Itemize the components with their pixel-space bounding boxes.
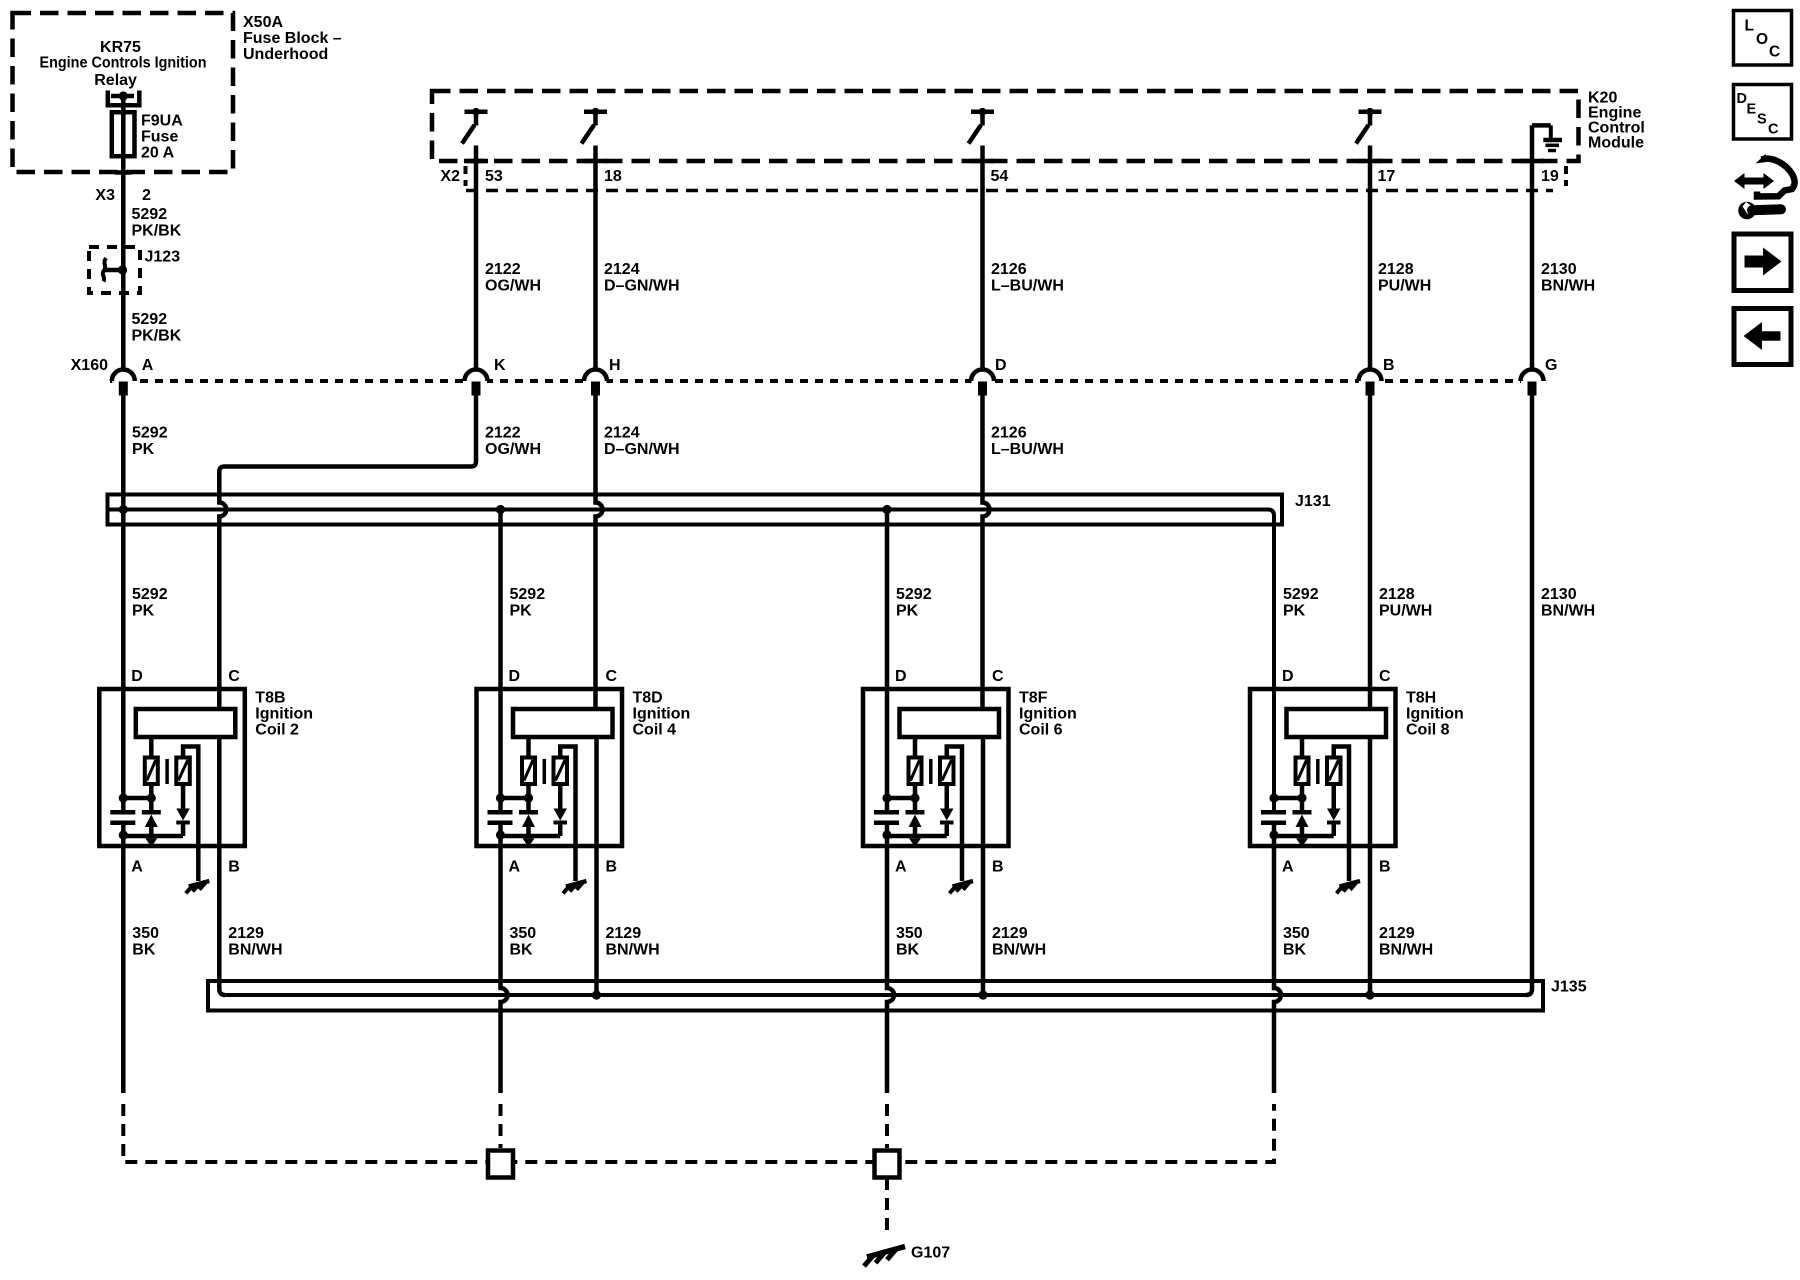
svg-text:PU/WH: PU/WH [1378,277,1431,294]
svg-text:A: A [509,859,521,876]
svg-text:B: B [606,859,618,876]
svg-text:Underhood: Underhood [243,46,328,63]
svg-text:BN/WH: BN/WH [1541,277,1595,294]
svg-text:BN/WH: BN/WH [228,941,282,958]
svg-text:T8B: T8B [255,690,285,707]
svg-text:5292: 5292 [1283,586,1319,603]
svg-text:L: L [1745,18,1754,35]
svg-text:5292: 5292 [132,586,168,603]
svg-text:2129: 2129 [1379,925,1415,942]
svg-text:19: 19 [1541,168,1559,185]
svg-text:X50A: X50A [243,14,283,31]
svg-text:C: C [606,668,618,685]
svg-text:PK: PK [132,602,155,619]
svg-text:Relay: Relay [94,72,137,89]
svg-text:BK: BK [510,941,534,958]
svg-text:Coil 4: Coil 4 [633,722,677,739]
svg-text:BK: BK [1283,941,1307,958]
svg-text:C: C [1769,44,1780,61]
svg-text:PK/BK: PK/BK [132,328,182,345]
svg-text:T8H: T8H [1406,690,1436,707]
svg-text:54: 54 [991,168,1009,185]
svg-text:Module: Module [1588,135,1644,152]
svg-text:350: 350 [510,925,537,942]
svg-text:K: K [494,357,506,374]
svg-text:S: S [1757,112,1767,128]
svg-text:2130: 2130 [1541,261,1577,278]
svg-text:H: H [609,357,621,374]
svg-text:L–BU/WH: L–BU/WH [991,441,1064,458]
svg-text:2129: 2129 [992,925,1028,942]
svg-text:PK/BK: PK/BK [132,223,182,240]
svg-text:5292: 5292 [132,311,168,328]
svg-text:BN/WH: BN/WH [606,941,660,958]
svg-text:2122: 2122 [485,261,521,278]
svg-text:BK: BK [132,941,156,958]
svg-text:J123: J123 [145,249,181,266]
svg-text:350: 350 [896,925,923,942]
svg-text:A: A [895,859,907,876]
svg-text:20 A: 20 A [141,145,175,162]
svg-text:L–BU/WH: L–BU/WH [991,277,1064,294]
svg-text:Ignition: Ignition [1406,706,1464,723]
svg-text:Ignition: Ignition [255,706,313,723]
svg-text:5292: 5292 [132,206,168,223]
svg-text:17: 17 [1378,168,1396,185]
svg-text:Ignition: Ignition [633,706,691,723]
svg-text:A: A [131,859,143,876]
svg-text:OG/WH: OG/WH [485,277,541,294]
svg-text:B: B [228,859,240,876]
svg-text:2128: 2128 [1378,261,1414,278]
svg-text:2129: 2129 [606,925,642,942]
svg-text:E: E [1747,102,1757,118]
svg-text:Coil 8: Coil 8 [1406,722,1450,739]
svg-text:Ignition: Ignition [1019,706,1077,723]
svg-text:PU/WH: PU/WH [1379,602,1432,619]
svg-text:BK: BK [896,941,920,958]
svg-text:2124: 2124 [604,425,640,442]
svg-text:18: 18 [604,168,622,185]
svg-text:Engine Controls Ignition: Engine Controls Ignition [40,55,207,72]
svg-text:Coil 2: Coil 2 [255,722,299,739]
svg-text:D–GN/WH: D–GN/WH [604,277,680,294]
svg-text:Fuse Block –: Fuse Block – [243,30,342,47]
svg-text:350: 350 [132,925,159,942]
svg-text:2128: 2128 [1379,586,1415,603]
svg-text:J131: J131 [1295,493,1331,510]
svg-text:O: O [1756,31,1768,48]
svg-text:D: D [1737,91,1747,107]
svg-text:B: B [992,859,1004,876]
svg-text:D: D [895,668,907,685]
svg-text:2122: 2122 [485,425,521,442]
svg-text:2130: 2130 [1541,586,1577,603]
svg-text:A: A [1282,859,1294,876]
svg-text:J135: J135 [1551,979,1587,996]
svg-text:BN/WH: BN/WH [992,941,1046,958]
svg-text:C: C [1379,668,1391,685]
svg-text:53: 53 [485,168,503,185]
svg-text:B: B [1383,357,1395,374]
svg-text:X2: X2 [440,168,460,185]
svg-text:5292: 5292 [510,586,546,603]
svg-text:2124: 2124 [604,261,640,278]
svg-text:X3: X3 [95,187,115,204]
svg-text:C: C [1768,122,1779,138]
svg-text:Fuse: Fuse [141,129,178,146]
svg-text:2129: 2129 [228,925,264,942]
svg-text:T8F: T8F [1019,690,1048,707]
svg-text:C: C [228,668,240,685]
svg-text:D–GN/WH: D–GN/WH [604,441,680,458]
svg-text:Coil 6: Coil 6 [1019,722,1063,739]
svg-text:KR75: KR75 [100,39,141,56]
svg-text:G: G [1545,357,1557,374]
svg-text:PK: PK [1283,602,1306,619]
svg-text:PK: PK [510,602,533,619]
svg-text:2126: 2126 [991,261,1027,278]
svg-text:G107: G107 [911,1245,950,1262]
svg-text:5292: 5292 [132,425,168,442]
svg-text:350: 350 [1283,925,1310,942]
svg-text:C: C [992,668,1004,685]
svg-text:PK: PK [132,441,155,458]
svg-text:F9UA: F9UA [141,113,183,130]
svg-text:PK: PK [896,602,919,619]
svg-text:BN/WH: BN/WH [1379,941,1433,958]
svg-text:BN/WH: BN/WH [1541,602,1595,619]
svg-text:OG/WH: OG/WH [485,441,541,458]
svg-text:B: B [1379,859,1391,876]
svg-text:X160: X160 [71,357,108,374]
svg-text:5292: 5292 [896,586,932,603]
svg-text:D: D [131,668,143,685]
svg-text:D: D [509,668,521,685]
svg-text:D: D [1282,668,1294,685]
svg-text:D: D [995,357,1007,374]
svg-text:T8D: T8D [633,690,663,707]
svg-text:2: 2 [142,187,151,204]
svg-text:A: A [142,357,154,374]
svg-text:2126: 2126 [991,425,1027,442]
